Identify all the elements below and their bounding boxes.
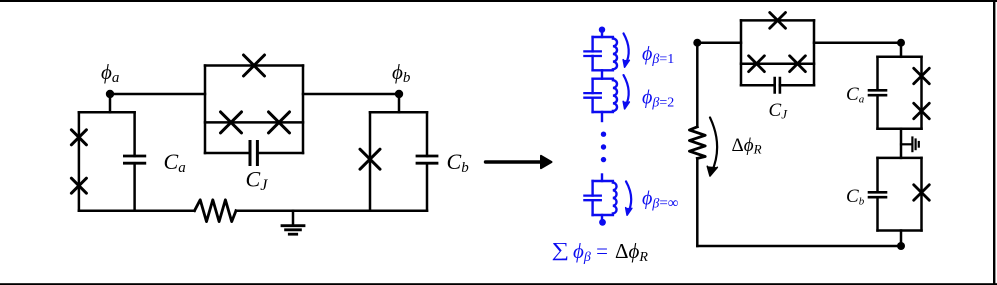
- capacitor CJ plates: [250, 142, 257, 165]
- arrow map (left to right): [486, 156, 552, 168]
- stub Cb box to bottom wire: [900, 231, 903, 247]
- svg-text:Cb: Cb: [846, 186, 865, 208]
- junction X top coupler right: [770, 13, 786, 29]
- capacitor Ca right plates: [869, 90, 886, 95]
- Cb box right edge: [920, 158, 923, 231]
- coupler box right: top edge: [741, 19, 814, 22]
- top wire left segment: [697, 41, 741, 44]
- wire coupler to node B: [303, 93, 399, 96]
- junction X mid-left coupler right: [749, 56, 765, 72]
- node bottom-right dot: [897, 242, 905, 250]
- svg-text:Ca: Ca: [846, 84, 865, 106]
- blue top node dot: [599, 27, 605, 33]
- phase arrow 3: [626, 181, 632, 215]
- svg-text:∑: ∑: [552, 239, 570, 261]
- Cb box bottom edge: [878, 229, 922, 232]
- junction X1 Ca box: [914, 68, 930, 84]
- stub element 3 to bottom dot: [601, 215, 603, 219]
- coupler box left edge: [204, 66, 207, 154]
- node A (phi_a) dot: [106, 90, 114, 98]
- capacitor Cb right plates: [869, 192, 886, 197]
- node top-left dot: [693, 39, 701, 47]
- right loop top edge: [370, 111, 427, 114]
- phase arrow 1: [623, 33, 629, 67]
- svg-text:Ca: Ca: [164, 149, 186, 176]
- coupler mid wire: [205, 121, 303, 124]
- phase arrow 2: [623, 75, 629, 109]
- ground bar 1 (vertical): [911, 138, 913, 152]
- ground bar 3: [289, 233, 296, 236]
- top wire right segment: [814, 41, 901, 44]
- junction X1 left loop: [71, 130, 86, 145]
- stub top dot to element 1: [601, 30, 603, 37]
- junction X mid-right coupler right: [790, 56, 806, 72]
- ground bar 3 (vertical): [918, 142, 920, 147]
- svg-text:Cb: Cb: [447, 149, 470, 176]
- junction X mid-right coupler: [269, 112, 290, 133]
- svg-text:ϕβ=2: ϕβ=2: [642, 87, 674, 111]
- node B stub down to right loop: [398, 94, 401, 112]
- capacitor Ca plates: [124, 156, 144, 163]
- node B (phi_b) dot: [395, 90, 403, 98]
- stub above element 3: [601, 175, 603, 182]
- coupler box right edge: [302, 66, 305, 154]
- capacitor Cb plates: [417, 156, 437, 163]
- wire node A stub down to left loop: [109, 94, 112, 112]
- capacitor Ca right edge upper segment: [133, 112, 136, 156]
- svg-text:ΔϕR: ΔϕR: [732, 135, 762, 157]
- svg-text:CJ: CJ: [246, 167, 269, 195]
- stub element1-element2: [601, 70, 603, 78]
- svg-text:ϕb: ϕb: [392, 60, 411, 86]
- RIGHT CIRCUIT: [689, 13, 929, 251]
- BLUE decomposition chain: [584, 27, 631, 226]
- Cb box top edge: [878, 157, 922, 160]
- ground stub: [292, 211, 295, 225]
- left loop left edge wire (junction branch): [78, 112, 81, 210]
- coupler box top edge: [205, 64, 303, 67]
- svg-text:ϕβ=∞: ϕβ=∞: [642, 188, 679, 212]
- junction X Cb box: [914, 185, 930, 201]
- Ca box bottom edge: [878, 127, 922, 130]
- svg-text:ϕβ=1: ϕβ=1: [642, 43, 674, 67]
- ground bar 1: [282, 224, 304, 227]
- Ca box top edge: [878, 56, 922, 59]
- frame right line: [993, 0, 995, 285]
- resistor R vertical zigzag: [689, 127, 705, 159]
- capacitor Ca right: left edge segments: [876, 57, 879, 129]
- bottom wire: [697, 245, 901, 248]
- left edge upper segment: [696, 43, 699, 127]
- curved arrow Delta phi_R: [707, 118, 717, 177]
- left loop top edge wire: [79, 111, 135, 114]
- wire Ca box to Cb box: [900, 129, 903, 158]
- capacitor CJ right: bottom edge segments: [741, 84, 814, 87]
- left edge lower segment: [696, 158, 699, 246]
- capacitor CJ right plates: [775, 78, 780, 92]
- ellipsis dots: [601, 132, 606, 137]
- capacitor Ca right edge lower segment: [133, 163, 136, 211]
- junction X mid-left coupler: [221, 112, 242, 133]
- ground stub right circuit: [901, 143, 911, 145]
- element 2 loop: [584, 79, 617, 112]
- svg-text:ϕβ =: ϕβ =: [573, 239, 608, 265]
- bottom wire left of resistor: [79, 209, 195, 212]
- frame top bar: [0, 0, 997, 2]
- element 3 loop: [584, 181, 616, 215]
- element 1 (L||C) loop: [584, 37, 617, 70]
- ground bar 2: [286, 228, 301, 231]
- resistor R zigzag: [195, 200, 237, 222]
- capacitor Cb right: left edge segments: [876, 158, 879, 231]
- wire node A to coupler box: [110, 93, 205, 96]
- coupler box right: right edge: [813, 20, 816, 85]
- coupler right mid wire: [741, 62, 814, 65]
- Ca box right edge: [920, 57, 923, 129]
- capacitor Cb right edge segments: [426, 112, 429, 210]
- junction X2 Ca box: [914, 103, 930, 119]
- ground bar 2 (vertical): [914, 140, 916, 150]
- junction X2 left loop: [71, 178, 86, 193]
- blue bottom node dot: [599, 219, 606, 226]
- frame bottom bar: [0, 283, 997, 285]
- stub top dot to Ca box: [900, 43, 903, 57]
- stub below element 2: [601, 112, 603, 121]
- coupler box right: left edge: [740, 20, 743, 85]
- node top-right dot: [897, 39, 905, 47]
- right loop left edge: [369, 112, 372, 210]
- svg-text:ΔϕR: ΔϕR: [615, 239, 648, 265]
- capacitor CJ bottom edge segments: [205, 152, 303, 155]
- bottom wire right of resistor: [236, 209, 427, 212]
- junction X right loop: [360, 149, 380, 169]
- junction X top of coupler: [244, 55, 265, 76]
- svg-text:CJ: CJ: [769, 100, 789, 122]
- svg-text:ϕa: ϕa: [101, 60, 119, 86]
